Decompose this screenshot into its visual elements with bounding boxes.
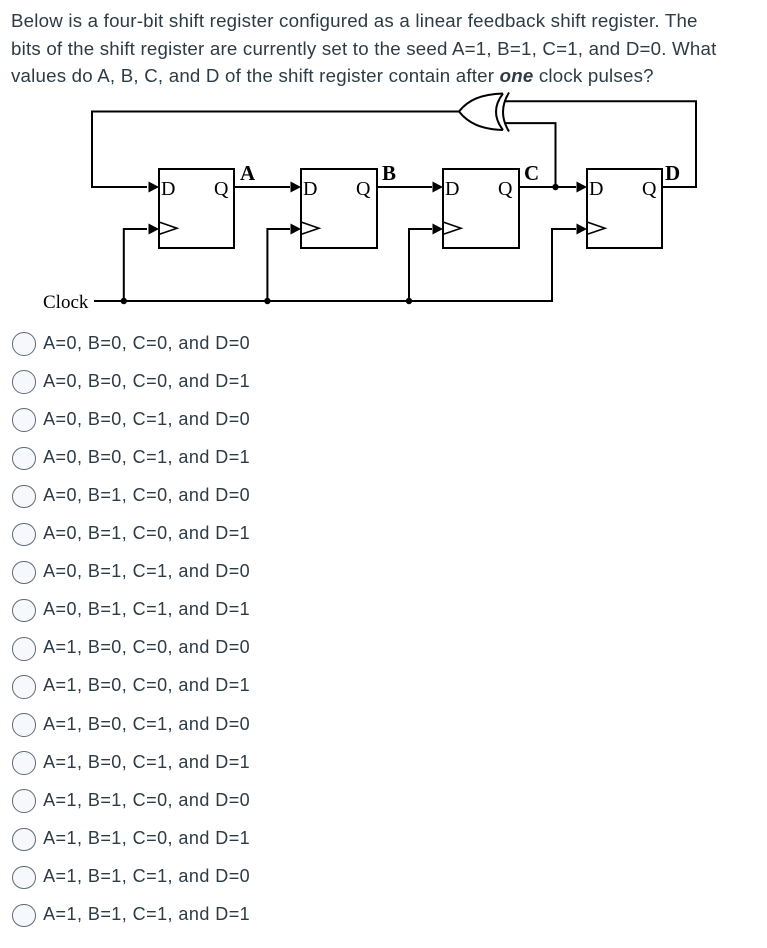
wire clock branch 3: [409, 229, 432, 301]
arrowhead into U4 clock: [577, 224, 588, 235]
flip-flop U3 box: [443, 169, 519, 248]
junction clock 2: [264, 298, 270, 304]
junction clock 3: [406, 298, 412, 304]
svg-text:A: A: [240, 161, 256, 185]
wire xor output feedback: [92, 112, 459, 188]
clock edge triangle U1: [159, 222, 177, 234]
arrowhead into U1 D: [149, 182, 160, 193]
wire ff1 to ff2 (node A): [234, 186, 290, 188]
svg-text:C: C: [524, 161, 539, 185]
flip-flop U4 box: [587, 169, 662, 248]
wire C node up to xor input: [504, 123, 556, 187]
wire ff4 Q to xor input (node D): [504, 101, 696, 187]
clock edge triangle U4: [587, 222, 605, 234]
svg-text:D: D: [445, 178, 459, 200]
wire clock branch 2: [267, 229, 290, 301]
svg-text:Clock: Clock: [43, 292, 89, 313]
svg-text:B: B: [382, 161, 396, 185]
svg-text:Q: Q: [642, 178, 657, 200]
wire ff3 to ff4 (node C): [519, 186, 576, 188]
junction clock 1: [121, 298, 127, 304]
arrowhead into U2 clock: [291, 224, 302, 235]
clock edge triangle U2: [301, 222, 319, 234]
svg-text:Q: Q: [356, 178, 371, 200]
arrowhead into U3 D: [433, 182, 444, 193]
svg-text:Q: Q: [214, 178, 229, 200]
svg-text:D: D: [589, 178, 603, 200]
svg-text:D: D: [665, 161, 680, 185]
flip-flop U2 box: [301, 169, 377, 248]
flip-flop U1 box: [159, 169, 234, 248]
xor gate G1: [459, 93, 509, 132]
arrowhead into U4 D: [577, 182, 588, 193]
arrowhead into U1 clock: [149, 224, 160, 235]
wire clock bus: [94, 229, 576, 301]
svg-text:Q: Q: [498, 178, 513, 200]
arrowhead into U2 D: [291, 182, 302, 193]
wire clock branch 1: [124, 229, 147, 301]
wire ff2 to ff3 (node B): [377, 186, 432, 188]
svg-text:D: D: [161, 178, 175, 200]
clock edge triangle U3: [443, 222, 461, 234]
arrowhead into U3 clock: [433, 224, 444, 235]
junction node C: [552, 184, 558, 190]
svg-text:D: D: [303, 178, 317, 200]
